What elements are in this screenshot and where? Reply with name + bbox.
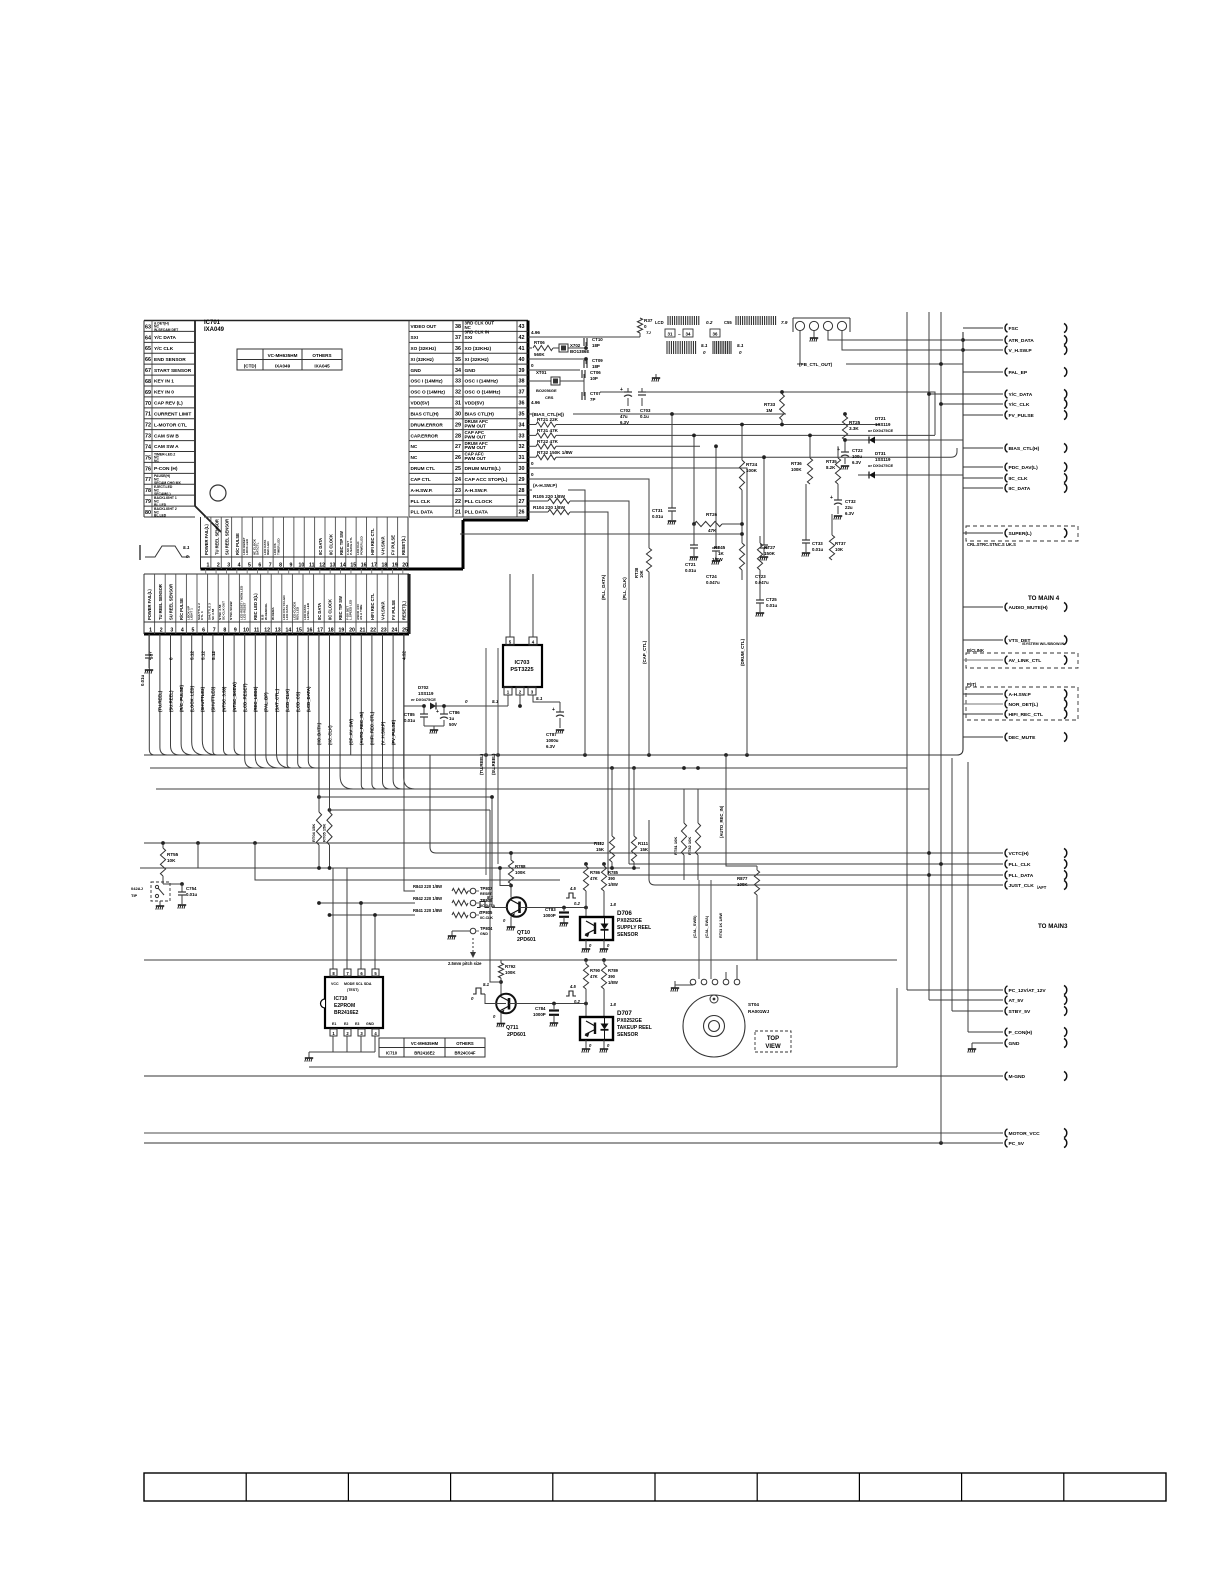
svg-text:12: 12 <box>319 563 325 569</box>
svg-text:50V: 50V <box>449 722 457 727</box>
pin-1 marker circle of IC701 <box>210 485 226 501</box>
svg-text:IIC DATA: IIC DATA <box>317 603 322 620</box>
label BIAS_CTL(H) wire pin35 <box>528 412 786 417</box>
svg-text:R792: R792 <box>505 964 516 969</box>
svg-text:TIP: TIP <box>131 893 138 898</box>
svg-text:47K: 47K <box>590 974 598 979</box>
connector stub PDC_DAV(L) <box>963 466 1003 468</box>
svg-text:REV.LED: REV.LED <box>296 606 300 620</box>
svg-text:100K: 100K <box>505 970 516 975</box>
label TOP VIEW dashed box <box>755 1031 791 1052</box>
resistor R105 220 row pin27 PLL CLOCK <box>528 494 629 864</box>
svg-text:JUST_CLK: JUST_CLK <box>1009 883 1035 889</box>
svg-text:1K: 1K <box>718 551 725 556</box>
waveform glyph C55 <box>724 316 788 325</box>
version table CTD IXA049/IXA045 <box>237 349 342 370</box>
svg-text:R786: R786 <box>590 870 601 875</box>
svg-text:0: 0 <box>531 363 534 368</box>
junction V_H.SW.P <box>961 348 965 352</box>
svg-text:33: 33 <box>519 433 525 439</box>
svg-text:NC: NC <box>411 455 418 460</box>
ground Q711 emitter <box>493 1013 505 1027</box>
svg-text:C55: C55 <box>724 320 732 325</box>
svg-text:DRUM CTL: DRUM CTL <box>411 466 436 471</box>
grounds under D707 <box>582 1040 608 1053</box>
connector stub M-GND <box>1000 1075 1003 1077</box>
wire VCTC(H) y853 <box>430 755 1002 853</box>
resistor R111 15K <box>631 768 648 870</box>
wire bus y768 <box>150 767 907 769</box>
waveform glyph LCD <box>655 316 720 337</box>
svg-text:(LCD_DATA): (LCD_DATA) <box>306 686 311 712</box>
svg-text:DT31: DT31 <box>875 451 886 456</box>
svg-text:TAKEUP REEL: TAKEUP REEL <box>617 1025 652 1031</box>
capacitor CT33 0.01u <box>802 484 824 552</box>
svg-text:23: 23 <box>381 628 387 634</box>
svg-text:PLL DATA: PLL DATA <box>411 510 434 515</box>
svg-text:RT27: RT27 <box>764 545 776 550</box>
svg-text:1/8W: 1/8W <box>712 557 723 562</box>
svg-text:OTHERS: OTHERS <box>456 1041 474 1046</box>
ground under C751 <box>145 670 153 674</box>
resistor RT33 1M <box>764 390 784 426</box>
svg-text:PX0252GE: PX0252GE <box>617 918 643 924</box>
svg-text:AT_5V: AT_5V <box>1009 998 1025 1004</box>
svg-text:38: 38 <box>455 324 461 330</box>
wire PLL_DATA y875 <box>608 874 1002 876</box>
wire Q711 base <box>485 994 506 1004</box>
op-amp U2 IC703 PST3225 <box>503 637 542 695</box>
svg-text:IIC.CLK: IIC.CLK <box>480 916 493 920</box>
svg-text:VDD(5V): VDD(5V) <box>465 401 485 407</box>
svg-text:4: 4 <box>238 563 241 569</box>
svg-text:FSC: FSC <box>1009 326 1019 332</box>
capacitor CT32 22u <box>830 484 856 516</box>
capacitor C751 0.01u <box>140 634 153 686</box>
svg-text:CAP ACC STOP(L): CAP ACC STOP(L) <box>465 477 508 483</box>
junction dots on bus y843 <box>196 841 257 845</box>
capacitor CT87 1000u <box>546 702 564 749</box>
svg-text:2: 2 <box>160 628 163 634</box>
wire DRUM CTL pin25 down <box>528 468 747 755</box>
svg-text:or DX0475CE: or DX0475CE <box>868 428 893 433</box>
svg-text:GND: GND <box>1009 1041 1020 1047</box>
svg-text:R37: R37 <box>644 318 653 323</box>
wire PB to V_H.SW.P <box>842 331 963 350</box>
svg-text:NOR_DET(L): NOR_DET(L) <box>1009 702 1039 708</box>
capacitor CT24 0.047u <box>706 444 720 585</box>
svg-text:(SAT_CTL.): (SAT_CTL.) <box>274 688 279 712</box>
junction PC_5V <box>939 1141 943 1145</box>
svg-text:(NTSC_3.58): (NTSC_3.58) <box>221 686 226 712</box>
svg-text:1SS119: 1SS119 <box>875 457 891 462</box>
resistor R785 390 <box>601 862 618 917</box>
svg-text:PLL CLK: PLL CLK <box>411 499 431 504</box>
resistor R786 47K <box>583 862 600 917</box>
pulse glyph at Q711 base <box>471 982 490 1001</box>
svg-text:B/CLINK: B/CLINK <box>967 648 984 653</box>
svg-text:15K: 15K <box>640 847 649 852</box>
svg-text:7P: 7P <box>590 397 595 402</box>
svg-text:CT09: CT09 <box>592 358 603 363</box>
svg-text:12: 12 <box>264 628 270 634</box>
svg-text:REC TIP SW: REC TIP SW <box>338 596 343 620</box>
wire vertical bus x968 P_CON <box>967 762 969 1032</box>
svg-text:5.1: 5.1 <box>737 343 744 348</box>
label 2.5mm pitch size <box>448 938 482 966</box>
svg-text:TO MAIN3: TO MAIN3 <box>1038 923 1068 930</box>
connector stub IIC_CLK <box>963 477 1003 479</box>
resistor RT26 47K <box>694 512 744 533</box>
svg-text:RT45: RT45 <box>714 545 726 550</box>
svg-text:37: 37 <box>455 335 461 341</box>
svg-text:DRUM MUTE(L): DRUM MUTE(L) <box>465 466 501 472</box>
resistor R788 100K <box>498 851 526 897</box>
ground under switch <box>156 906 164 910</box>
wire reel block border <box>309 988 897 1067</box>
svg-text:RT22 47K: RT22 47K <box>537 439 559 444</box>
svg-text:IIC CLOCK: IIC CLOCK <box>328 534 333 555</box>
svg-text:(PLL_CLK): (PLL_CLK) <box>622 577 627 600</box>
svg-text:IXA045: IXA045 <box>314 364 330 369</box>
motor S704 RA001WJ body <box>683 995 770 1057</box>
svg-text:REC LED 2(L): REC LED 2(L) <box>253 593 258 620</box>
svg-text:5.12: 5.12 <box>200 651 205 660</box>
svg-text:43: 43 <box>519 324 525 330</box>
IC701 bottom pins 1-20 <box>201 517 409 569</box>
pulse glyph at D706 <box>566 886 580 906</box>
svg-text:18P: 18P <box>592 364 600 369</box>
svg-text:67: 67 <box>145 368 151 374</box>
svg-text:RT24: RT24 <box>746 462 758 467</box>
ground at motor terminal <box>671 985 679 992</box>
svg-text:D707: D707 <box>617 1010 632 1017</box>
svg-text:1: 1 <box>149 628 152 634</box>
svg-text:38: 38 <box>519 379 525 385</box>
wire GND stub y1043 <box>972 1042 1002 1044</box>
svg-text:CT24: CT24 <box>706 574 717 579</box>
svg-text:E2: E2 <box>344 1022 348 1026</box>
svg-text:5: 5 <box>192 628 195 634</box>
version table IC710 BR2416E2/BR24C04F <box>379 1038 485 1057</box>
svg-text:(AUTO_REC_IN): (AUTO_REC_IN) <box>719 805 724 838</box>
connector stub FSC <box>963 327 1003 329</box>
wire Q710 base <box>492 907 507 909</box>
connector stub AT_5V <box>1000 999 1003 1001</box>
connector stub STBY_5V <box>1000 1010 1003 1012</box>
wire PB to ATR_DATA <box>828 331 963 340</box>
svg-text:GND: GND <box>465 368 476 374</box>
svg-text:BR24C04F: BR24C04F <box>455 1051 476 1056</box>
connector stub VTS_DET <box>963 635 1067 646</box>
svg-text:8: 8 <box>279 563 282 569</box>
svg-text:TOP: TOP <box>767 1036 779 1042</box>
ground under CT33 <box>802 553 810 557</box>
svg-text:390: 390 <box>608 876 616 881</box>
svg-text:RA001WJ: RA001WJ <box>748 1009 770 1014</box>
svg-text:CT06: CT06 <box>590 370 601 375</box>
junction ATR_DATA <box>961 338 965 342</box>
svg-text:31: 31 <box>455 401 461 407</box>
connector stub PAL_EP <box>963 371 1003 373</box>
svg-text:PDC_DAV(L): PDC_DAV(L) <box>1009 465 1039 471</box>
resistor R790 47K <box>583 960 600 1017</box>
svg-text:24: 24 <box>391 628 397 634</box>
svg-text:FV PULSE: FV PULSE <box>391 600 396 620</box>
svg-text:+: + <box>552 707 555 713</box>
svg-text:CT31: CT31 <box>652 508 663 513</box>
svg-text:22: 22 <box>455 499 461 505</box>
capacitor C702 47u <box>600 387 632 425</box>
connector stub GND <box>1000 1042 1003 1044</box>
svg-text:74: 74 <box>145 444 151 450</box>
svg-text:IC703: IC703 <box>515 660 530 666</box>
svg-text:0.01u: 0.01u <box>652 514 664 519</box>
wire IC703 pin5 up <box>509 574 511 637</box>
svg-text:HIFI_REC_CTL: HIFI_REC_CTL <box>1009 712 1044 718</box>
svg-text:26: 26 <box>455 455 461 461</box>
svg-text:R111: R111 <box>638 841 649 846</box>
junction dots bus y768 <box>610 766 700 770</box>
svg-text:CT85: CT85 <box>404 712 415 717</box>
svg-text:LCD: LCD <box>655 320 664 325</box>
svg-text:SUPER(L): SUPER(L) <box>1009 531 1032 537</box>
svg-text:(CTD): (CTD) <box>244 364 257 369</box>
resistor RT06 560K <box>528 340 553 357</box>
svg-text:BIAS CTL(H): BIAS CTL(H) <box>411 411 440 416</box>
svg-text:1SS119: 1SS119 <box>418 691 434 696</box>
svg-text:KEY IN 0: KEY IN 0 <box>154 390 174 396</box>
svg-text:14: 14 <box>285 628 291 634</box>
capacitor C784 1000P <box>533 1004 559 1024</box>
svg-text:7.9: 7.9 <box>781 320 788 325</box>
svg-text:13: 13 <box>275 628 281 634</box>
svg-text:TP807: TP807 <box>480 886 493 891</box>
wire CAL_SWA vertical <box>710 880 712 979</box>
svg-text:(REC_LED2): (REC_LED2) <box>253 686 258 712</box>
svg-text:PST3225: PST3225 <box>510 667 533 673</box>
svg-text:R789: R789 <box>608 968 619 973</box>
svg-text:21: 21 <box>455 510 461 516</box>
connector stub IIC_DATA <box>963 487 1003 489</box>
svg-text:6.3V: 6.3V <box>546 744 555 749</box>
svg-text:MOTOR_VCC: MOTOR_VCC <box>1009 1131 1041 1137</box>
svg-text:IIC DATA: IIC DATA <box>318 538 323 555</box>
crystal X702 BO1386E <box>553 343 589 354</box>
wire bus y868 <box>140 867 640 869</box>
svg-text:73: 73 <box>145 434 151 440</box>
svg-text:72: 72 <box>145 423 151 429</box>
svg-text:31: 31 <box>668 332 673 337</box>
ground at GND stub <box>968 1043 976 1053</box>
svg-text:P-CON (H): P-CON (H) <box>154 466 178 472</box>
svg-text:(TU.REEL): (TU.REEL) <box>158 690 163 712</box>
svg-text:1u: 1u <box>449 716 454 721</box>
svg-text:R785: R785 <box>608 870 619 875</box>
svg-text:W.DEMA: W.DEMA <box>271 607 275 620</box>
svg-text:TO MAIN 4: TO MAIN 4 <box>1028 595 1060 602</box>
svg-text:5.1: 5.1 <box>483 982 490 987</box>
svg-text:100K: 100K <box>746 468 758 473</box>
svg-text:TU REEL SENSOR: TU REEL SENSOR <box>214 519 219 555</box>
svg-text:VCC: VCC <box>331 982 339 986</box>
svg-text:CAM SW A: CAM SW A <box>154 444 179 450</box>
svg-text:17: 17 <box>317 628 323 634</box>
svg-text:65: 65 <box>145 346 151 352</box>
wire Q710 output to sensor <box>520 907 587 909</box>
svg-text:CAM SW B: CAM SW B <box>154 433 179 439</box>
wire y392 top rail <box>639 392 935 435</box>
svg-text:er DX0475CE: er DX0475CE <box>411 697 436 702</box>
svg-text:(SU.REEL): (SU.REEL) <box>491 753 496 775</box>
svg-text:28: 28 <box>519 488 525 494</box>
wire CAP CTL pin24 down with RT38 <box>528 479 652 755</box>
svg-text:5.1: 5.1 <box>536 696 543 701</box>
svg-text:BIAS_CTL(H): BIAS_CTL(H) <box>1009 446 1040 452</box>
svg-text:4.5: 4.5 <box>569 984 576 989</box>
IC701 left pin table pins 63-80 <box>144 321 195 518</box>
svg-text:CT32: CT32 <box>845 499 856 504</box>
svg-text:20: 20 <box>402 563 408 569</box>
resistor RT21 22K row <box>528 417 880 427</box>
svg-text:VCTC(H): VCTC(H) <box>1009 851 1029 857</box>
waveform pulse glyph B <box>713 341 744 355</box>
wire IC710 SDA up <box>373 913 377 969</box>
svg-text:27: 27 <box>455 444 461 450</box>
svg-text:6.3V: 6.3V <box>845 511 854 516</box>
svg-text:M-GND: M-GND <box>1009 1074 1026 1080</box>
svg-text:(PLL_DATA): (PLL_DATA) <box>601 574 606 600</box>
bottom revision table <box>144 1473 1166 1501</box>
svg-text:100u: 100u <box>852 454 862 459</box>
wire Q711 output to sensor <box>509 1003 586 1005</box>
capacitor CT31 0.01u <box>652 412 676 520</box>
svg-text:9: 9 <box>290 563 293 569</box>
label 0 pin30 row <box>528 461 545 468</box>
svg-text:6: 6 <box>258 563 261 569</box>
svg-text:11: 11 <box>254 628 260 634</box>
resistor R104 220 row pin26 PLL DATA <box>528 505 608 875</box>
capacitor CT25 0.01u <box>756 578 778 612</box>
connector stub JUST_CLK /AFT <box>1000 880 1067 890</box>
svg-text:37: 37 <box>519 390 525 396</box>
wire x198 down from bus843 <box>197 843 199 868</box>
resistor R37 <box>637 318 652 337</box>
transistor Q710 2PD601 <box>507 897 536 943</box>
op-amp U3 IC710 E2PROM BR2416E2 <box>321 969 384 1036</box>
svg-text:C784: C784 <box>535 1006 546 1011</box>
wire AT_5V y1000 <box>929 999 1002 1001</box>
capacitor CT85 0.01u <box>404 704 428 726</box>
capacitor CT06 10P <box>528 370 601 381</box>
svg-text:L-MOTOR CTL: L-MOTOR CTL <box>154 422 187 428</box>
svg-text:C702: C702 <box>620 408 631 413</box>
resistor RT25 3.3K <box>842 412 860 440</box>
svg-text:END SENSOR: END SENSOR <box>154 357 186 363</box>
svg-text:SXI: SXI <box>411 335 419 340</box>
connector stub ATR_DATA <box>963 339 1003 341</box>
svg-text:PC_5V: PC_5V <box>1009 1141 1025 1147</box>
svg-text:XO (32KHz): XO (32KHz) <box>465 346 492 352</box>
wire AUTO_REC_IN down to R877 <box>726 755 757 866</box>
svg-text:SU REEL SENSOR: SU REEL SENSOR <box>225 519 230 555</box>
capacitor CT10 18P <box>528 337 603 359</box>
svg-text:PX0252GE: PX0252GE <box>617 1018 643 1024</box>
svg-text:15K: 15K <box>596 847 605 852</box>
wire IC710 SCL up <box>359 901 363 969</box>
svg-text:(CAL_SWA): (CAL_SWA) <box>704 915 709 938</box>
resistor R789 390 <box>601 960 618 1017</box>
svg-text:6.3V: 6.3V <box>852 460 861 465</box>
svg-text:(HIFI_REC_CTL): (HIFI_REC_CTL) <box>370 711 375 745</box>
svg-text:22: 22 <box>370 628 376 634</box>
diode DT21 1SS119 <box>845 416 963 444</box>
svg-text:4.96: 4.96 <box>531 400 540 405</box>
junction D706 lead <box>584 906 588 910</box>
svg-text:(NTSC_SKEW): (NTSC_SKEW) <box>232 682 237 712</box>
svg-text:PWM OUT: PWM OUT <box>465 456 487 461</box>
svg-text:RT06: RT06 <box>534 340 545 345</box>
svg-text:GND: GND <box>480 932 488 936</box>
svg-text:RT36: RT36 <box>791 461 802 466</box>
svg-text:39: 39 <box>519 368 525 374</box>
svg-text:1M: 1M <box>766 408 773 413</box>
svg-text:100K: 100K <box>791 467 802 472</box>
svg-text:Y/C CLK: Y/C CLK <box>154 346 174 352</box>
svg-text:SC 3.58: SC 3.58 <box>211 609 215 620</box>
svg-text:NC: NC <box>154 459 159 463</box>
svg-text:100K: 100K <box>515 870 526 875</box>
svg-text:BL.LED: BL.LED <box>154 514 167 518</box>
svg-text:SENSOR: SENSOR <box>617 932 639 938</box>
svg-text:0.047u: 0.047u <box>755 580 769 585</box>
svg-text:MODE SCL SDA: MODE SCL SDA <box>344 982 372 986</box>
junction y797 <box>490 795 494 799</box>
svg-text:+: + <box>436 709 439 715</box>
wire IC703 pin3 to CT87 <box>533 695 560 702</box>
connector stub Y/C_DATA <box>929 393 1003 395</box>
connector stub AV_LINK_CTL with dashed box <box>963 648 1078 668</box>
svg-text:HIFI REC CTL: HIFI REC CTL <box>370 593 375 620</box>
svg-text:4: 4 <box>181 628 184 634</box>
svg-text:VIEW: VIEW <box>765 1044 781 1050</box>
svg-text:POWER.LED: POWER.LED <box>359 535 363 555</box>
grounds under D706 <box>582 940 608 953</box>
connector stub PC_12V/AT_12V <box>1000 989 1003 991</box>
svg-text:34: 34 <box>455 368 461 374</box>
wire IC710 MODE up <box>346 868 348 969</box>
svg-text:7: 7 <box>269 563 272 569</box>
svg-text:PLL DATA: PLL DATA <box>465 510 489 516</box>
wire vertical bus x929 <box>928 312 930 1000</box>
svg-text:0: 0 <box>531 461 534 466</box>
svg-text:(SHUTTLE3): (SHUTTLE3) <box>211 686 216 712</box>
svg-text:32: 32 <box>455 390 461 396</box>
ground under CT87 <box>556 730 564 734</box>
svg-text:36: 36 <box>519 401 525 407</box>
svg-text:(AUTO_REC_IN): (AUTO_REC_IN) <box>359 711 364 745</box>
svg-text:TP804: TP804 <box>480 926 493 931</box>
ground under CT23 <box>760 557 768 561</box>
wire CAL_SWB vertical <box>698 880 700 979</box>
svg-text:SAT.CTL: SAT.CTL <box>256 542 260 555</box>
svg-text:E1: E1 <box>332 1022 336 1026</box>
wire vertical bus x907 <box>906 312 908 990</box>
waveform glyph left trapezoid <box>140 545 190 560</box>
svg-text:DRUM.ERROR: DRUM.ERROR <box>411 422 444 427</box>
wire vertical bus x941 <box>940 312 942 1143</box>
svg-text:CURRENT LIMIT: CURRENT LIMIT <box>154 411 191 417</box>
